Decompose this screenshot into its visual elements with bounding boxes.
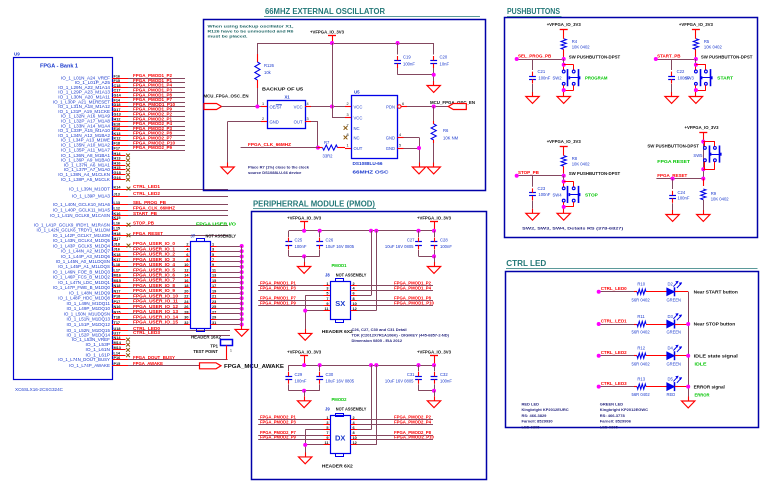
note RED LED part info <box>522 402 569 430</box>
svg-text:1: 1 <box>262 102 264 106</box>
svg-text:IO_1_L32N_A16_M1A9: IO_1_L32N_A16_M1A9 <box>61 114 111 119</box>
wire / net CTRL_LED1 <box>599 318 634 324</box>
wire caps bottom (PMOD1 right) <box>419 256 435 258</box>
U5 pin 5 GND <box>386 144 404 152</box>
svg-text:GREEN: GREEN <box>667 361 682 366</box>
svg-text:8: 8 <box>353 297 355 301</box>
U5 pin 4 GND <box>386 133 404 141</box>
pushbutton SW3 <box>695 69 713 86</box>
wire / net CTRL_LED0 <box>599 286 634 291</box>
svg-text:R13: R13 <box>637 376 645 381</box>
svg-text:PDN: PDN <box>386 105 395 110</box>
svg-text:SW PUSHBUTTON-DPST: SW PUSHBUTTON-DPST <box>701 54 753 59</box>
J8 pin 7 <box>324 297 331 301</box>
svg-text:IO_1_L48N_M1DQ9: IO_1_L48N_M1DQ9 <box>69 290 111 295</box>
svg-text:9: 9 <box>212 263 214 267</box>
node SEL_PROG_PB left end <box>515 57 519 61</box>
svg-text:11: 11 <box>212 268 216 272</box>
svg-text:28: 28 <box>184 310 188 314</box>
svg-text:RED LED: RED LED <box>522 402 540 407</box>
J9 pin 2 <box>351 416 358 420</box>
svg-text:TP1: TP1 <box>210 343 218 348</box>
connector J8 body HEADER 6X2 <box>331 279 351 323</box>
svg-text:IO_1_L41P_GCLK9_IRDY1_M1RASN: IO_1_L41P_GCLK9_IRDY1_M1RASN <box>34 223 110 228</box>
svg-text:4: 4 <box>307 102 309 106</box>
resistor R12 56R 0402 <box>632 346 668 367</box>
FPGA pin K13 IO_1_L34N_A12_M1BA2 / net FPGA_PMOD2_P8 <box>58 131 185 138</box>
svg-text:8: 8 <box>353 431 355 435</box>
svg-text:IO_1_L74P_AWAKE: IO_1_L74P_AWAKE <box>69 363 110 368</box>
svg-text:9: 9 <box>326 436 328 440</box>
FPGA pin T17 IO_1_L51P_M1DQ12 / net FPGA_USER_IO_15 <box>66 320 190 327</box>
svg-text:Farnell: 8529906: Farnell: 8529906 <box>600 419 632 424</box>
svg-text:IO_1_L51P_M1DQ12: IO_1_L51P_M1DQ12 <box>66 322 110 327</box>
svg-text:17: 17 <box>212 284 216 288</box>
X1 pin 1 OE/ST <box>261 102 283 110</box>
wire D2 to bus <box>677 291 688 293</box>
wire / net START_PB <box>656 53 696 59</box>
svg-text:IO_1_L29N_A22_M1A14: IO_1_L29N_A22_M1A14 <box>58 85 110 90</box>
svg-text:H16: H16 <box>114 161 121 165</box>
wire SW4 bottom branch <box>564 202 574 209</box>
svg-text:STOP_PB: STOP_PB <box>518 170 540 175</box>
FPGA pin M14 IO_1_L53P no-connect <box>86 341 130 347</box>
ground (SW3) <box>689 92 702 103</box>
J8 pin 9 <box>324 302 331 306</box>
ground (C29 C30) <box>297 391 310 408</box>
J8 pin 10 <box>351 302 358 306</box>
svg-text:NOT ASSEMBLY: NOT ASSEMBLY <box>336 272 367 277</box>
ground (C27 C28) <box>427 256 440 273</box>
svg-text:C31: C31 <box>407 372 415 377</box>
FPGA pin N18 IO_1_L47P_FWE_B_M1DQ0 / net FPGA_USER_IO_8 <box>53 283 190 290</box>
connector J7 refdes <box>191 234 237 239</box>
ground (SW4) <box>557 209 570 220</box>
LED D2 GREEN <box>665 281 682 303</box>
port MCU_FPGA_OSC_EN (right) <box>430 100 475 110</box>
U5 pin 8 NC no-connect <box>344 133 360 141</box>
svg-text:VCC: VCC <box>354 105 363 110</box>
J9 pin 9 <box>324 436 331 440</box>
svg-text:C32: C32 <box>440 372 448 377</box>
svg-text:CTRL LED: CTRL LED <box>506 259 546 268</box>
svg-text:Near START button: Near START button <box>694 290 739 295</box>
svg-text:R10: R10 <box>637 282 645 287</box>
svg-text:CTRL_LED1: CTRL_LED1 <box>601 318 627 323</box>
svg-text:NOT ASSEMBLY: NOT ASSEMBLY <box>206 234 237 239</box>
resistor R126 <box>255 43 275 107</box>
svg-text:Near STOP button: Near STOP button <box>694 322 736 327</box>
svg-text:FPGA_PMOD1_P4: FPGA_PMOD1_P4 <box>133 83 173 88</box>
section box PERIPHERRAL MODULE (PMOD) <box>252 212 487 480</box>
resistor R7 33R2 <box>318 140 345 159</box>
FPGA pin P17 IO_1_L49N_M1DQ11 / net FPGA_USER_IO_11 <box>66 299 190 306</box>
svg-text:When using backup oscillator X: When using backup oscillator X1, <box>208 24 294 29</box>
svg-text:9: 9 <box>326 302 328 306</box>
svg-text:3: 3 <box>326 421 328 425</box>
junction FPGA_RESET/R9 <box>701 177 705 181</box>
svg-text:L14: L14 <box>114 352 121 356</box>
svg-text:IO_1_L39N_M1ODT: IO_1_L39N_M1ODT <box>69 186 110 191</box>
svg-text:7: 7 <box>212 258 214 262</box>
svg-text:FPGA_CLK_66MHZ: FPGA_CLK_66MHZ <box>133 205 175 210</box>
FPGA pin L16 IO_1_L41P_GCLK9_IRDY1_M1RASN / net STOP_PB <box>34 220 228 227</box>
svg-text:SEL_PROG_PB: SEL_PROG_PB <box>518 53 552 58</box>
J7 ground bus wire <box>241 246 243 329</box>
wire LED cathode bus <box>688 292 690 397</box>
svg-text:FPGA_PMOD1_P8: FPGA_PMOD1_P8 <box>394 296 432 301</box>
svg-text:3: 3 <box>212 248 214 252</box>
junction gnd (PMOD1 right) <box>432 254 436 258</box>
J9 pin 8 <box>351 431 358 435</box>
junction R5/START_PB <box>694 57 698 61</box>
svg-text:10uF 16V 0805: 10uF 16V 0805 <box>385 244 414 249</box>
section box CTRL LED <box>506 272 759 428</box>
FPGA pin J16 IO_1_L44N_A2_M1DQ7 / net FPGA_USER_IO_1 <box>61 246 190 253</box>
svg-text:SW PUSHBUTTON-DPST: SW PUSHBUTTON-DPST <box>647 144 699 149</box>
svg-text:FPGA_USER_IO_4: FPGA_USER_IO_4 <box>133 262 176 267</box>
svg-text:F14: F14 <box>114 98 121 102</box>
FPGA pin J18 IO_1_L43P_GCLK5_M1DQ4 / net FPGA_USER_IO_0 <box>53 241 190 248</box>
wire trunk to SW2 <box>563 59 565 70</box>
FPGA pin K15 (nc) <box>112 216 120 220</box>
J8 pin 1 <box>324 282 331 286</box>
wire X1 GND to ground <box>228 122 262 163</box>
FPGA pin L15 IO_1_L42N_GCLK6_TRDY1_M1LDM <box>37 226 120 232</box>
junction J9 gnd <box>303 443 307 447</box>
svg-text:OUT: OUT <box>294 120 303 125</box>
J9 pin 7 <box>324 431 331 435</box>
svg-text:FPGA USER I/O: FPGA USER I/O <box>196 221 237 226</box>
svg-text:100nF: 100nF <box>440 244 452 249</box>
svg-text:100nF: 100nF <box>295 244 307 249</box>
junction SW2 bottom <box>562 88 566 92</box>
svg-text:N17: N17 <box>114 289 121 293</box>
FPGA pin E18 IO_1_L33N_A14_M1A4 / net FPGA_PMOD2_P4 <box>61 121 185 128</box>
svg-text:FPGA_CLK_66MHZ: FPGA_CLK_66MHZ <box>248 142 291 147</box>
wire SW5 top branch <box>703 142 715 147</box>
junction R4/SEL_PROG_PB <box>562 57 566 61</box>
svg-text:FPGA_USER_IO_0: FPGA_USER_IO_0 <box>133 241 176 246</box>
junction rail/power <box>330 41 334 45</box>
svg-text:IO_1_L34P_A13_M1WE: IO_1_L34P_A13_M1WE <box>61 138 110 143</box>
FPGA pin L12 IO_1_L40P_GCLK11_M1A5 / net FPGA_CLK_66MHZ <box>53 205 228 212</box>
note capacitor detail <box>352 327 450 343</box>
svg-text:HEADER 6X2: HEADER 6X2 <box>322 329 354 334</box>
resistor R10 56R 0402 <box>632 282 668 303</box>
svg-text:GND: GND <box>386 146 395 151</box>
svg-text:FPGA_PMOD2_P8: FPGA_PMOD2_P8 <box>133 131 173 136</box>
FPGA pin J13 IO_1_L39P_M1A3 / net CTRL_LED2 <box>72 191 228 198</box>
svg-text:IO_1_L53N_VREF: IO_1_L53N_VREF <box>72 337 111 342</box>
FPGA pin M16 IO_1_L46P_FCS_B_M1DQ2 / net FPGA_USER_IO_6 <box>53 272 190 279</box>
svg-text:R11: R11 <box>637 314 645 319</box>
svg-text:SW5: SW5 <box>693 153 703 158</box>
FPGA pin F14 IO_1_L30P_A21_M1RESET / net FPGA_PMOD1_P7 <box>53 97 185 104</box>
svg-text:FPGA_PMOD2_P2: FPGA_PMOD2_P2 <box>394 415 432 420</box>
svg-text:100nF: 100nF <box>403 62 415 67</box>
wire / net SEL_PROG_PB <box>517 53 564 59</box>
X1 pin 2 GND <box>261 117 279 125</box>
FPGA pin K14 IO_1_L39N_M1ODT / net CTRL_LED1 <box>69 184 228 191</box>
FPGA pin N17 IO_1_L48N_M1DQ9 / net FPGA_USER_IO_9 <box>69 288 190 295</box>
FPGA pin K17 IO_1_L45N_A0_M1LDQSN / net FPGA_USER_IO_3 <box>56 257 190 264</box>
svg-text:C24: C24 <box>678 190 686 195</box>
note GREEN LED part info <box>600 402 648 430</box>
port FPGA_MCU_AWAKE <box>200 363 285 370</box>
svg-text:16: 16 <box>184 279 188 283</box>
section title PERIPHERRAL MODULE (PMOD) <box>253 200 376 209</box>
svg-text:NOT ASSEMBLY: NOT ASSEMBLY <box>336 407 367 412</box>
svg-text:T18: T18 <box>114 316 121 320</box>
svg-text:10: 10 <box>353 436 357 440</box>
svg-text:FPGA_USER_IO_3: FPGA_USER_IO_3 <box>133 257 176 262</box>
svg-text:IO_1_L46P_FCS_B_M1DQ2: IO_1_L46P_FCS_B_M1DQ2 <box>53 275 111 280</box>
connector J9 body HEADER 6X2 <box>331 414 351 457</box>
label SW PUSHBUTTON-DPST (SW4) <box>569 171 621 176</box>
svg-text:FPGA_PMOD1_P2: FPGA_PMOD1_P2 <box>133 73 173 78</box>
svg-text:START_PB: START_PB <box>657 53 681 58</box>
section box 66MHZ EXTERNAL OSCILLATOR <box>204 20 486 191</box>
svg-text:FPGA_PMOD2_P3: FPGA_PMOD2_P3 <box>260 420 296 425</box>
svg-text:SW PUSHBUTTON-DPST: SW PUSHBUTTON-DPST <box>569 171 621 176</box>
wire / net FPGA_PMOD1_P9 <box>258 300 323 305</box>
svg-text:+VFPGA_IO_3V3: +VFPGA_IO_3V3 <box>417 350 451 355</box>
svg-text:must be placed.: must be placed. <box>208 34 248 39</box>
svg-text:10: 10 <box>184 263 188 267</box>
FPGA pin H18 IO_1_L42P_GCLK7_M1UDM / net FPGA_RESET <box>53 231 228 238</box>
wire X1 OUT down <box>311 122 318 148</box>
wire PDN to port <box>407 106 448 108</box>
FPGA pin L18 IO_1_L45P_A1_M1LDQS / net FPGA_USER_IO_4 <box>58 262 190 269</box>
svg-text:FPGA_USER_IO_12: FPGA_USER_IO_12 <box>133 304 179 309</box>
svg-text:IO_1_L48P_HDC_M1DQ8: IO_1_L48P_HDC_M1DQ8 <box>58 296 110 301</box>
svg-text:1: 1 <box>326 416 328 420</box>
svg-text:MCU_FPGA_OSC_EN: MCU_FPGA_OSC_EN <box>204 94 249 99</box>
svg-text:ERROR: ERROR <box>695 392 711 397</box>
svg-text:IO_1_L49N_M1DQ11: IO_1_L49N_M1DQ11 <box>66 301 110 306</box>
label PMOD1 <box>332 263 347 268</box>
svg-text:10uF 16V 0805: 10uF 16V 0805 <box>326 244 355 249</box>
svg-text:29: 29 <box>212 316 216 320</box>
svg-text:FPGA_PMOD1_P10: FPGA_PMOD1_P10 <box>394 300 434 305</box>
ground (LED bus) <box>682 397 695 408</box>
wire SW3 top branch <box>696 65 706 71</box>
svg-text:SEL_PROG_PB: SEL_PROG_PB <box>133 200 166 205</box>
ground (U5) <box>412 163 425 174</box>
ground (C23) <box>526 209 539 220</box>
svg-text:H12: H12 <box>114 118 121 122</box>
svg-text:L17: L17 <box>114 268 121 272</box>
svg-text:7: 7 <box>347 123 349 127</box>
U5 pin 3 VCC <box>345 113 362 121</box>
pushbutton SW4 <box>562 186 580 203</box>
capacitor C31 10uF <box>385 365 422 391</box>
svg-text:5: 5 <box>399 144 401 148</box>
svg-text:J8: J8 <box>325 272 330 277</box>
power +VFPGA_IO_3V3 (PMOD1 right) <box>417 215 451 231</box>
wire / net FPGA_PMOD1_P10 <box>357 300 434 305</box>
wire SW2 top branch <box>564 65 574 71</box>
svg-text:FPGA_PMOD2_P9: FPGA_PMOD2_P9 <box>260 435 296 440</box>
J8 pin 12 <box>351 307 358 311</box>
capacitor C28 100nF <box>431 231 453 257</box>
section title PUSHBUTTONS <box>507 7 562 16</box>
svg-text:Place R7 (1%) close to the clo: Place R7 (1%) close to the clock <box>248 165 310 170</box>
svg-text:2: 2 <box>347 102 349 106</box>
svg-text:D2: D2 <box>668 282 674 287</box>
svg-text:FPGA_PMOD2_P1: FPGA_PMOD2_P1 <box>133 116 173 121</box>
svg-text:U17: U17 <box>114 331 121 335</box>
svg-text:IO_1_L74N_DOUT_BUSY: IO_1_L74N_DOUT_BUSY <box>58 357 110 362</box>
FPGA pin P15 IO_1_L74P_AWAKE / net FPGA_AWAKE <box>69 361 199 368</box>
U5 value DS1088LU-66 <box>353 161 384 166</box>
svg-text:25: 25 <box>212 305 216 309</box>
J9 pin 4 <box>351 421 358 425</box>
FPGA pin H13 IO_1_L36P_A9_M1BA0 no-connect <box>61 157 130 163</box>
svg-text:FPGA_PMOD2_P10: FPGA_PMOD2_P10 <box>133 140 176 145</box>
annotation Near STOP button <box>694 322 736 327</box>
svg-text:FPGA_USER_IO_8: FPGA_USER_IO_8 <box>133 283 176 288</box>
capacitor C30 10uF <box>316 365 355 391</box>
svg-text:FPGA_USER_IO_14: FPGA_USER_IO_14 <box>133 314 179 319</box>
svg-text:C21: C21 <box>538 69 546 74</box>
svg-text:FPGA_PMOD1_P3: FPGA_PMOD1_P3 <box>260 285 296 290</box>
svg-text:R12: R12 <box>637 346 645 351</box>
svg-text:J16: J16 <box>114 248 120 252</box>
svg-text:10K NM: 10K NM <box>443 136 459 141</box>
svg-text:FPGA_PMOD1_P7: FPGA_PMOD1_P7 <box>260 296 296 301</box>
svg-text:SW3: SW3 <box>685 76 695 81</box>
svg-text:IO_1_L31N_A18_M1A12: IO_1_L31N_A18_M1A12 <box>58 104 110 109</box>
svg-text:R126: R126 <box>264 63 275 68</box>
node CTRL_LED3 left end <box>597 385 601 389</box>
FPGA pin U18 IO_1_L52N_M1DQ15 / net CTRL_LED0 <box>66 326 230 333</box>
svg-text:FPGA RESET: FPGA RESET <box>657 159 690 164</box>
svg-text:R7: R7 <box>324 140 330 145</box>
junction U5 GND <box>417 146 421 150</box>
FPGA pin K18 IO_1_L44P_A3_M1DQ6 / net FPGA_USER_IO_2 <box>61 252 190 259</box>
wire trunk to SW4 <box>563 176 565 187</box>
svg-text:IDLE: IDLE <box>695 362 707 367</box>
svg-text:FPGA_PMOD2_P4: FPGA_PMOD2_P4 <box>133 121 173 126</box>
svg-text:6: 6 <box>402 102 404 106</box>
svg-text:D5: D5 <box>668 376 674 381</box>
svg-text:XC6SLX16-2CSG324C: XC6SLX16-2CSG324C <box>15 387 63 392</box>
svg-text:IO_1_L44N_A2_M1DQ7: IO_1_L44N_A2_M1DQ7 <box>61 249 111 254</box>
wire / net CTRL_LED3 <box>599 381 634 387</box>
svg-text:VCC: VCC <box>294 105 303 110</box>
note about backup oscillator <box>208 24 295 39</box>
svg-text:+VFPGA_IO_3V3: +VFPGA_IO_3V3 <box>679 22 713 27</box>
svg-text:DS1088LU-66: DS1088LU-66 <box>353 161 384 166</box>
svg-text:IO_1_L36P_A9_M1BA0: IO_1_L36P_A9_M1BA0 <box>61 158 111 163</box>
svg-text:C27: C27 <box>407 238 415 243</box>
svg-text:+VFPGA_IO_3V3: +VFPGA_IO_3V3 <box>310 30 344 35</box>
svg-text:GREEN: GREEN <box>667 330 682 335</box>
svg-text:source DS1088LU-66 device: source DS1088LU-66 device <box>248 170 302 175</box>
wire / net FPGA_PMOD2_P10 <box>357 435 434 440</box>
svg-text:J7: J7 <box>191 234 196 239</box>
svg-text:3: 3 <box>307 117 309 121</box>
svg-text:TDK (C2012X7R1A106K) - DIGIKEY: TDK (C2012X7R1A106K) - DIGIKEY (445-6857… <box>352 333 450 338</box>
J9 footprint label <box>322 464 354 469</box>
J8 footprint label <box>322 329 354 334</box>
wire caps bottom (PMOD2 left) <box>289 390 320 392</box>
FPGA pin H16 IO_1_L37N_A6_M1A1 no-connect <box>64 161 130 167</box>
svg-text:6: 6 <box>186 253 188 257</box>
svg-text:IO_1_L61N: IO_1_L61N <box>86 347 111 352</box>
SW2 refdes <box>553 76 563 81</box>
svg-text:2: 2 <box>353 416 355 420</box>
FPGA pin T18 IO_1_L51N_M1DQ13 / net FPGA_USER_IO_14 <box>66 314 190 321</box>
wire SW2 bottom branch <box>564 85 574 92</box>
svg-text:IO_1_L37P_A7_M1A0: IO_1_L37P_A7_M1A0 <box>64 167 111 172</box>
svg-text:D3: D3 <box>668 314 674 319</box>
test point TP1 body <box>221 340 233 353</box>
svg-text:32: 32 <box>184 321 188 325</box>
FPGA pin M13 IO_1_L61N no-connect <box>86 346 130 352</box>
svg-text:GREEN LED: GREEN LED <box>600 402 623 407</box>
FPGA block title <box>40 64 78 70</box>
node CTRL_LED2 left end <box>597 354 601 358</box>
annotation Near START button <box>694 290 739 295</box>
wire trunk (SW5) <box>703 142 705 179</box>
svg-text:R8: R8 <box>572 156 578 161</box>
J7 odd pins 1-31 wires to ground bus <box>211 242 244 326</box>
junction R8/STOP_PB <box>562 174 566 178</box>
svg-text:FPGA_PMOD1_P9: FPGA_PMOD1_P9 <box>133 107 173 112</box>
svg-text:J18: J18 <box>114 242 120 246</box>
svg-text:C28: C28 <box>440 238 448 243</box>
svg-text:+VFPGA_IO_3V3: +VFPGA_IO_3V3 <box>287 350 321 355</box>
svg-text:HEADER 16X2: HEADER 16X2 <box>191 335 222 340</box>
svg-text:FPGA_PMOD2_P1: FPGA_PMOD2_P1 <box>260 415 296 420</box>
svg-text:CTRL_LED2: CTRL_LED2 <box>133 191 161 196</box>
svg-text:10K 0402: 10K 0402 <box>711 196 730 201</box>
svg-text:10: 10 <box>353 302 357 306</box>
svg-text:F17: F17 <box>114 146 121 150</box>
svg-text:CTRL_LED1: CTRL_LED1 <box>133 184 161 189</box>
junction FPGA_CLK node <box>316 146 320 150</box>
capacitor C22 100nF <box>668 59 690 92</box>
wire J9 VCC pin 12 <box>357 365 377 445</box>
svg-text:12: 12 <box>184 268 188 272</box>
svg-text:C20: C20 <box>440 55 448 60</box>
wire power rail (PMOD1) <box>289 230 434 232</box>
svg-text:FPGA_PMOD1_P1: FPGA_PMOD1_P1 <box>260 280 296 285</box>
svg-text:NC: NC <box>354 136 360 141</box>
X1 pin 4 VCC <box>294 102 311 110</box>
J8 pin 3 <box>324 287 331 291</box>
svg-text:FPGA_USER_IO_10: FPGA_USER_IO_10 <box>133 293 179 298</box>
ground (J8) <box>299 329 312 340</box>
svg-text:30: 30 <box>184 316 188 320</box>
J8 pin 11 <box>324 307 331 311</box>
svg-text:FPGA_PMOD1_P8: FPGA_PMOD1_P8 <box>133 92 173 97</box>
FPGA pin L14 IO_1_L61P no-connect <box>86 352 130 358</box>
note place R7 close to clock source <box>248 165 310 176</box>
svg-text:IO_1_L35P_A11_M1A7: IO_1_L35P_A11_M1A7 <box>61 147 111 152</box>
J7 footprint label <box>191 335 222 340</box>
capacitor C29 100nF <box>285 365 306 391</box>
svg-text:SW4: SW4 <box>553 192 563 197</box>
svg-text:5: 5 <box>212 253 214 257</box>
power +VFPGA_IO_3V3 (PMOD1 left) <box>287 215 321 231</box>
svg-text:START_PB: START_PB <box>133 211 157 216</box>
svg-text:2: 2 <box>186 242 188 246</box>
svg-text:IO_1_L36N_A8_M1BA1: IO_1_L36N_A8_M1BA1 <box>61 153 111 158</box>
